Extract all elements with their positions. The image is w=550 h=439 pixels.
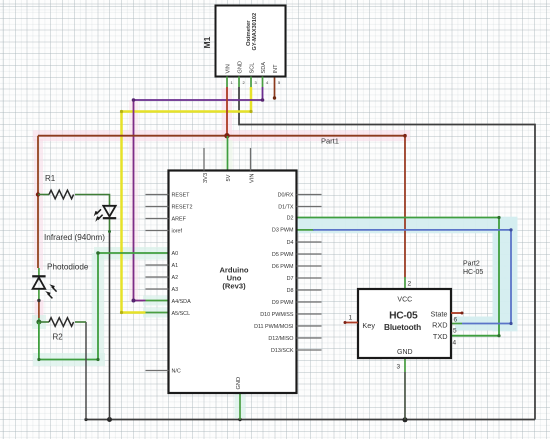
svg-text:R2: R2 bbox=[53, 333, 64, 342]
Part2 label bbox=[463, 261, 483, 276]
junction purple corner A4 bbox=[132, 299, 136, 303]
Arduino right pins bbox=[254, 192, 321, 353]
svg-text:D4: D4 bbox=[287, 240, 294, 246]
svg-text:SDA: SDA bbox=[261, 62, 267, 74]
svg-text:D12/MISO: D12/MISO bbox=[268, 336, 293, 342]
junction photodiode anode dot bbox=[37, 299, 40, 302]
svg-text:D0/RX: D0/RX bbox=[278, 192, 294, 198]
svg-text:3: 3 bbox=[255, 80, 258, 85]
svg-text:A4/SDA: A4/SDA bbox=[172, 299, 192, 305]
svg-text:Part1: Part1 bbox=[321, 137, 339, 146]
svg-text:2: 2 bbox=[243, 80, 246, 85]
wire D3 to RXD blue bbox=[297, 230, 512, 324]
svg-text:5: 5 bbox=[278, 80, 281, 85]
svg-text:VIN: VIN bbox=[249, 174, 255, 183]
svg-text:D9 PWM: D9 PWM bbox=[272, 300, 294, 306]
wire D2 to TXD green bbox=[297, 218, 500, 336]
svg-text:1: 1 bbox=[231, 80, 234, 85]
svg-text:A5/SCL: A5/SCL bbox=[172, 311, 191, 317]
svg-text:RXD: RXD bbox=[432, 321, 447, 330]
svg-text:TXD: TXD bbox=[433, 332, 448, 341]
wire GND black net bbox=[86, 87, 535, 420]
wire A0 green net bbox=[39, 253, 169, 360]
svg-text:R1: R1 bbox=[45, 174, 56, 183]
svg-text:1: 1 bbox=[349, 315, 353, 322]
junction LED lead dot bbox=[108, 230, 111, 233]
svg-text:Infrared (940nm): Infrared (940nm) bbox=[44, 233, 105, 242]
junction green corner a bbox=[37, 358, 40, 361]
junction Arduino GND bbox=[238, 418, 241, 421]
wire R2 to GND bbox=[85, 322, 87, 420]
junction green corner b bbox=[96, 358, 99, 361]
wire SCL yellow net bbox=[122, 87, 252, 313]
wire R1 to LED bbox=[75, 195, 110, 207]
resistor R2 bbox=[39, 318, 86, 342]
svg-text:N/C: N/C bbox=[172, 368, 181, 374]
svg-text:A3: A3 bbox=[172, 287, 179, 293]
junction LED cathode to GND bbox=[107, 417, 112, 422]
svg-text:HC-05: HC-05 bbox=[463, 269, 483, 276]
svg-text:ioref: ioref bbox=[172, 228, 183, 234]
junction purple corner top bbox=[261, 98, 265, 102]
wire SDA magenta vertical bbox=[134, 100, 146, 301]
LED D1 infrared bbox=[44, 206, 116, 242]
svg-text:4: 4 bbox=[453, 340, 457, 347]
svg-text:RESET2: RESET2 bbox=[172, 204, 193, 210]
junction photodiode/R2 node bbox=[36, 320, 41, 325]
wire 5V green lead to Arduino bbox=[227, 136, 229, 171]
junction blue corner bottom bbox=[509, 322, 512, 325]
junction yellow corner bbox=[249, 110, 252, 113]
svg-text:RESET: RESET bbox=[172, 192, 191, 198]
wire SDA purple net bbox=[134, 87, 263, 100]
svg-text:Bluetooth: Bluetooth bbox=[384, 322, 421, 332]
wire INT stub bbox=[274, 77, 276, 99]
svg-text:D8: D8 bbox=[287, 288, 294, 294]
HC-05 pin 1 Key stub bbox=[344, 315, 359, 325]
svg-text:D2: D2 bbox=[287, 215, 294, 221]
svg-text:D7: D7 bbox=[287, 276, 294, 282]
junction HC-05 GND bbox=[403, 417, 408, 422]
net highlight bands bbox=[32, 88, 518, 418]
HC-05 pin numbers bbox=[397, 281, 458, 371]
svg-text:GND: GND bbox=[236, 377, 242, 390]
svg-text:D6 PWM: D6 PWM bbox=[272, 264, 294, 270]
wire photodiode cathode green lead bbox=[38, 268, 40, 276]
svg-text:M1: M1 bbox=[202, 36, 212, 48]
wire 5V red rail (Part1 net) bbox=[38, 87, 405, 278]
junction INT endpoint bbox=[273, 96, 276, 99]
photodiode bbox=[32, 263, 89, 299]
Arduino top pins 3V3 5V VIN bbox=[203, 148, 256, 183]
svg-text:State: State bbox=[430, 310, 447, 319]
svg-text:GND: GND bbox=[237, 61, 243, 73]
junction VIN/5V bbox=[224, 133, 229, 138]
svg-text:VIN: VIN bbox=[225, 64, 231, 73]
svg-text:D11 PWM/MOSI: D11 PWM/MOSI bbox=[254, 324, 293, 330]
wire A5 green lead bbox=[146, 312, 169, 314]
svg-text:VCC: VCC bbox=[397, 297, 412, 304]
junction blue corner top bbox=[509, 228, 512, 231]
HC-05 pin 6 State stub bbox=[451, 312, 464, 324]
junction yellow corner left bbox=[120, 110, 123, 113]
svg-text:GND: GND bbox=[397, 349, 413, 356]
svg-text:3V3: 3V3 bbox=[203, 173, 209, 183]
svg-text:Part2: Part2 bbox=[463, 261, 480, 268]
svg-text:5V: 5V bbox=[226, 174, 232, 181]
oximeter pin leads bbox=[227, 77, 281, 88]
svg-text:D3 PWM: D3 PWM bbox=[272, 228, 294, 234]
svg-text:AREF: AREF bbox=[172, 216, 187, 222]
wire Arduino GND green lead bbox=[239, 393, 241, 420]
svg-text:A1: A1 bbox=[172, 263, 179, 269]
wire LED cathode down bbox=[109, 218, 111, 420]
resistor R1 bbox=[38, 174, 74, 199]
wire photodiode anode segment bbox=[38, 289, 40, 322]
wire HC-05 GND lead bbox=[404, 358, 406, 420]
junction purple corner left bbox=[132, 98, 136, 102]
junction R1 tap bbox=[36, 192, 40, 196]
svg-text:5: 5 bbox=[453, 328, 457, 335]
svg-text:Key: Key bbox=[362, 321, 375, 330]
svg-text:D5 PWM: D5 PWM bbox=[272, 252, 294, 258]
svg-text:D13/SCK: D13/SCK bbox=[271, 348, 294, 354]
svg-text:INT: INT bbox=[273, 64, 279, 74]
junction rail corner at VCC bbox=[403, 134, 407, 138]
svg-text:3: 3 bbox=[397, 364, 401, 371]
svg-text:(Rev3): (Rev3) bbox=[222, 281, 246, 290]
svg-text:2: 2 bbox=[408, 281, 412, 288]
junction green corner top bbox=[497, 216, 500, 219]
junction green corner bottom bbox=[497, 334, 500, 337]
junction green corner A0 bbox=[96, 251, 100, 255]
Arduino Uno U1 bbox=[169, 171, 297, 394]
svg-text:SCL: SCL bbox=[249, 63, 255, 74]
svg-text:A2: A2 bbox=[172, 275, 179, 281]
svg-text:6: 6 bbox=[454, 317, 458, 324]
svg-text:GY-MAX30102: GY-MAX30102 bbox=[252, 13, 258, 51]
Arduino left pins bbox=[146, 192, 193, 374]
wire A4 green lead bbox=[146, 300, 169, 302]
svg-text:HC-05: HC-05 bbox=[389, 311, 418, 322]
HC-05 Part2 bbox=[358, 289, 451, 358]
junction R2 to GND bbox=[84, 418, 87, 421]
svg-text:D1/TX: D1/TX bbox=[278, 204, 294, 210]
svg-text:A0: A0 bbox=[172, 251, 179, 257]
svg-text:Photodiode: Photodiode bbox=[47, 263, 89, 272]
wire VCC green lead HC-05 bbox=[404, 277, 406, 289]
svg-text:4: 4 bbox=[266, 80, 269, 85]
svg-text:D10 PWM/SS: D10 PWM/SS bbox=[260, 312, 294, 318]
junction yellow corner A5 bbox=[120, 311, 123, 314]
oximeter M1 GY-MAX30102 bbox=[202, 6, 286, 77]
